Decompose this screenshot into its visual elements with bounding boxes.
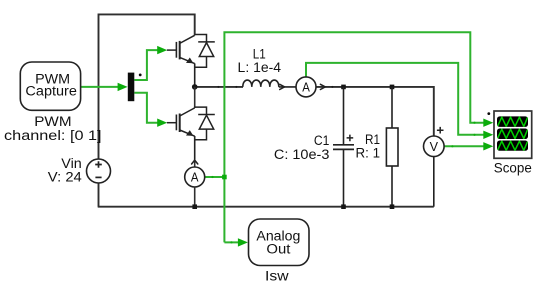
ammeter A1 (inductor current): [296, 77, 316, 97]
scope screen 1: [497, 116, 528, 127]
scope screen 2: [497, 129, 528, 140]
scope screen 3 waveform: [497, 141, 527, 151]
scope input 1 marker dot: [487, 112, 490, 115]
arrowhead at Q1 gate: [157, 46, 167, 54]
PWM Capture block: [20, 62, 80, 110]
wire: DC+ rail from Vin to IGBT Q1 collector: [99, 14, 195, 159]
emitter arrow of Q2: [186, 130, 193, 136]
svg-text:Out: Out: [266, 241, 290, 256]
svg-text:L1: L1: [253, 46, 266, 61]
wire: switch node to inductor L1: [195, 86, 243, 88]
Analog Out block: [249, 219, 310, 266]
svg-text:R: 1: R: 1: [356, 146, 381, 161]
svg-text:Scope: Scope: [494, 160, 532, 175]
wire: A2 to bottom rail: [194, 187, 196, 207]
signal wire: demux out 2 to IGBT Q2 gate (green): [134, 93, 159, 123]
ammeter A2 (switch current Isw): [185, 167, 205, 187]
svg-text:A: A: [302, 80, 310, 95]
current direction arrow after L1: [280, 84, 285, 89]
wire: Vin negative lead down to bottom rail: [98, 183, 100, 207]
svg-text:V: 24: V: 24: [48, 170, 83, 185]
svg-text:C: 10e-3: C: 10e-3: [274, 147, 330, 162]
wire: Q2 emitter to ammeter A2 with current direction arrow: [194, 159, 196, 167]
junction: C1 top: [341, 85, 346, 90]
svg-text:C1: C1: [314, 133, 330, 148]
signal wire: ammeter A2 output up to scope input 1 (green, net Isw): [205, 32, 486, 242]
svg-text:L: 1e-4: L: 1e-4: [238, 60, 282, 75]
signal wire: ammeter A1 output to scope input 2 (green): [306, 63, 486, 135]
current direction arrow after A1: [320, 84, 325, 89]
junction: C1 bottom: [341, 204, 346, 209]
arrowhead into demux: [118, 83, 128, 91]
junction: R1 top: [390, 85, 395, 90]
signal wire: PWM Capture output to demux (green): [81, 86, 120, 88]
scope block: [494, 111, 532, 158]
anti-parallel diode of Q2: [195, 107, 215, 140]
scope screen 1 waveform: [497, 117, 527, 127]
junction: R1 bottom: [390, 204, 395, 209]
emitter arrow of Q1: [186, 58, 193, 64]
IGBT Q1: [167, 35, 195, 87]
demux D1: [128, 73, 135, 102]
tiny wire joint dots (green wires): [211, 122, 475, 244]
IGBT Q2: [167, 108, 195, 160]
arrowhead into scope input 1: [483, 119, 493, 127]
svg-text:V: V: [430, 139, 439, 154]
node: switch node junction: [192, 84, 198, 90]
signal wire: voltmeter VM1 output to scope input 3 (green): [444, 145, 486, 147]
wire: bottom rail (0V): [98, 206, 434, 208]
resistor R1: [386, 87, 398, 207]
arrowhead into scope input 2: [483, 131, 493, 139]
arrowhead into scope input 3: [483, 142, 493, 150]
wire: A1 to output top rail and down to voltmeter: [316, 87, 434, 136]
voltmeter VM1: [424, 127, 445, 207]
arrowhead into Analog Out: [238, 238, 248, 246]
junction: green signal T at A2 output: [222, 175, 227, 180]
arrow up into A2 wire: [192, 160, 198, 164]
wire: switch node down to IGBT Q2 collector: [194, 87, 196, 108]
inductor L1: [243, 80, 296, 87]
svg-text:Capture: Capture: [25, 84, 77, 99]
capacitor C1: [333, 87, 354, 207]
junction: A2 at bottom rail: [192, 204, 197, 209]
tiny wire joint dots (black wires): [217, 86, 333, 88]
svg-text:A: A: [191, 170, 199, 185]
scope screen 3: [497, 141, 528, 151]
svg-text:Isw: Isw: [265, 268, 289, 283]
signal wire: Isw branch to Analog Out (green): [224, 241, 240, 243]
voltage source V1 (Vin): [87, 159, 111, 183]
arrowhead at Q2 gate: [157, 119, 167, 127]
svg-text:channel: [0 1]: channel: [0 1]: [4, 128, 102, 143]
scope screen 2 waveform: [497, 129, 527, 139]
demux output 1 marker dot: [139, 74, 142, 77]
anti-parallel diode of Q1: [195, 35, 215, 68]
signal wire: demux out 1 to IGBT Q1 gate (green): [134, 50, 159, 80]
